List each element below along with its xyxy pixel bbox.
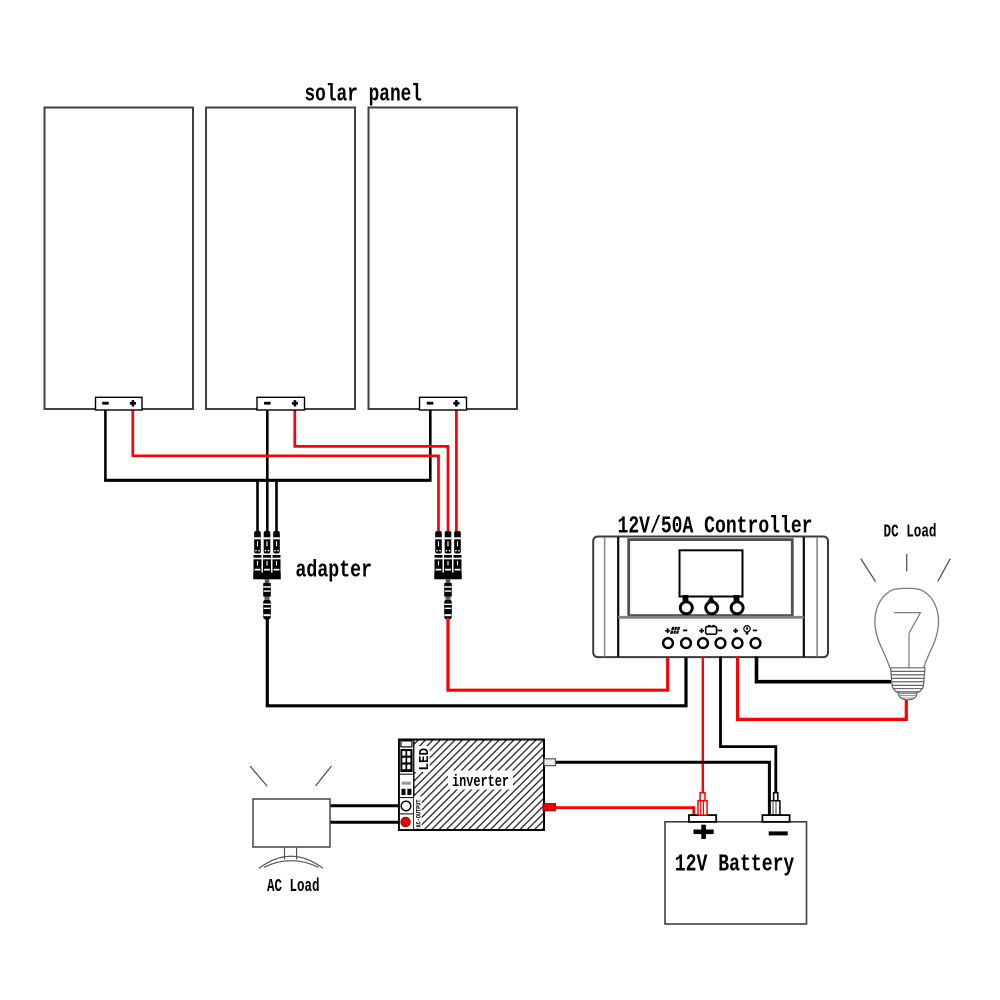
wire inverter black to battery negative (555, 762, 769, 816)
wire AC load to inverter line 2 (329, 821, 400, 824)
terminal 3 battery positive (698, 638, 708, 648)
wire controller terminal 6 to DC load (757, 657, 892, 682)
solar panel 1 (45, 108, 194, 410)
battery B1 box (665, 822, 807, 924)
wire controller terminal 5 to DC load (738, 657, 907, 720)
terminal 6 load negative (751, 638, 761, 648)
controller face plate (629, 540, 793, 616)
icon solar panel (670, 627, 680, 634)
DC load ray middle (906, 554, 908, 571)
controller lower divider gray band (618, 616, 804, 619)
wire AC load to inverter line 1 (329, 804, 400, 807)
controller left flange black line (617, 537, 619, 657)
controller button 2 (706, 602, 718, 614)
svg-text:DC Load: DC Load (884, 523, 937, 543)
icon battery plus (699, 628, 704, 633)
battery plus symbol (694, 825, 714, 839)
MC4 3-to-1 adapter right (red) (434, 531, 462, 620)
AC load monitor screen (253, 799, 330, 847)
svg-text:AC-OUTPUT: AC-OUTPUT (416, 799, 423, 827)
junction box panel 3 (420, 397, 467, 410)
wire panel2 negative to left adapter pin2 (266, 410, 269, 532)
terminal 5 load positive (733, 638, 743, 648)
icon lamp plus (733, 628, 738, 633)
battery positive post (698, 793, 707, 815)
inverter body with hatch (399, 740, 544, 831)
DC load ray right (938, 559, 951, 582)
icon lamp minus (753, 630, 757, 632)
junction box panel 2 (257, 397, 305, 410)
inverter AC outlet white (401, 801, 411, 811)
inverter switch block (400, 774, 413, 797)
battery negative post (770, 793, 780, 815)
svg-text:12V Battery: 12V Battery (675, 852, 795, 879)
controller LCD feet tabs (683, 595, 740, 602)
terminal 4 battery negative (716, 638, 726, 648)
AC load monitor sparkle right (316, 766, 332, 786)
AC load monitor sparkle left (250, 766, 267, 786)
svg-text:adapter: adapter (296, 558, 373, 585)
battery positive pedestal (689, 815, 716, 822)
controller LCD display (680, 550, 743, 596)
DC load bulb screw base (891, 668, 925, 700)
wire controller terminal 3 to battery positive (702, 657, 704, 794)
terminal 1 solar positive (663, 638, 673, 648)
wire controller terminal 4 to battery negative (721, 657, 776, 794)
icon solar minus (683, 630, 687, 632)
svg-text:AC Load: AC Load (267, 877, 320, 897)
svg-text:solar panel: solar panel (305, 82, 423, 109)
wire panel1 positive to right adapter pin1 (133, 410, 439, 532)
inverter left column (399, 740, 414, 830)
AC load monitor stand neck (285, 847, 297, 860)
inverter divider (400, 813, 413, 815)
wire bus to left adapter pin3 (275, 480, 278, 533)
label LED background (414, 746, 429, 772)
controller U1 body (593, 537, 828, 658)
label AC-OUTPUT background (414, 797, 422, 829)
inverter DC input white connector (544, 759, 556, 766)
battery negative pedestal (762, 815, 789, 822)
inverter AC outlet red (401, 817, 411, 827)
wire black bus panels negative (104, 479, 431, 482)
inverter label background (448, 771, 513, 790)
svg-text:inverter: inverter (452, 773, 509, 792)
svg-text:LED: LED (417, 748, 433, 771)
wire bus to left adapter pin1 (256, 480, 259, 533)
icon solar plus (665, 628, 670, 633)
solar panel 2 (206, 108, 355, 410)
DC load bulb filament (894, 613, 921, 673)
MC4 3-to-1 adapter left (black) (253, 531, 281, 620)
wire panel1 negative drop (104, 410, 107, 481)
wire panel2 positive to right adapter pin2 (295, 410, 448, 532)
controller right flange gray line (816, 537, 818, 657)
icon battery (706, 625, 717, 634)
solar panel 3 (369, 108, 518, 410)
controller left flange gray line (604, 537, 606, 657)
wire panel3 positive to right adapter pin3 (455, 410, 458, 532)
battery minus symbol (769, 831, 788, 835)
inverter LED digit display (400, 749, 412, 772)
controller button 3 (731, 602, 743, 614)
wire left adapter output to controller terminal 2 (267, 618, 686, 706)
wire panel3 negative drop (429, 410, 432, 481)
DC load ray left (861, 559, 876, 582)
inverter DC input red connector (543, 804, 556, 811)
wire right adapter output to controller terminal 1 (448, 618, 668, 690)
controller right flange black line (803, 537, 805, 657)
DC load bulb glass (875, 588, 939, 667)
wire inverter red to battery positive (555, 808, 694, 816)
junction box panel 1 (96, 397, 143, 410)
terminal 2 solar negative (681, 638, 691, 648)
icon lamp bulb (744, 626, 750, 635)
AC load monitor stand base (259, 856, 323, 868)
icon battery minus (718, 630, 722, 632)
controller button 1 (680, 602, 692, 614)
